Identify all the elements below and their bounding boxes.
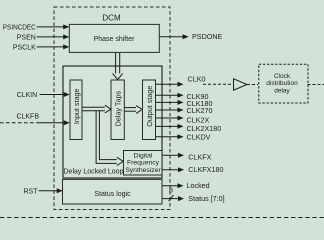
svg-text:distribution: distribution: [266, 80, 298, 87]
svg-text:8: 8: [169, 187, 173, 194]
svg-text:CLKFX180: CLKFX180: [188, 165, 223, 174]
delay locked loop box: [63, 66, 162, 178]
svg-text:Phase shifter: Phase shifter: [94, 36, 136, 43]
svg-text:RST: RST: [24, 188, 39, 195]
wire CLK0: [156, 75, 234, 87]
phase shifter box: [69, 24, 159, 52]
svg-text:Status logic: Status logic: [94, 191, 131, 198]
wire CLKIN: [17, 92, 70, 99]
svg-text:Synthesizer: Synthesizer: [125, 167, 161, 174]
wire CLK270: [156, 106, 213, 115]
svg-text:CLKIN: CLKIN: [17, 92, 38, 99]
wire PSCLK: [13, 44, 69, 51]
status logic box: [63, 179, 163, 204]
svg-text:Status [7:0]: Status [7:0]: [188, 194, 224, 203]
wire PSEN: [17, 34, 69, 41]
svg-text:Output stage: Output stage: [145, 86, 154, 127]
wire CLK180: [156, 99, 213, 108]
svg-text:CLKFX: CLKFX: [188, 152, 211, 161]
delay taps box: [111, 80, 124, 140]
input stage box: [70, 80, 82, 140]
svg-text:CLK0: CLK0: [188, 75, 206, 84]
wire Status [7:0] (bus): [162, 187, 225, 203]
svg-text:Locked: Locked: [187, 181, 210, 190]
svg-text:Frequency: Frequency: [127, 160, 160, 167]
wire CLK2X180: [156, 124, 222, 133]
svg-text:CLKFB: CLKFB: [16, 114, 39, 121]
buffer (clock buffer triangle): [234, 79, 259, 90]
svg-text:Delay Taps: Delay Taps: [113, 90, 122, 126]
wire CLKFX180: [162, 165, 223, 174]
wire CLKFX: [162, 152, 212, 161]
DCM dashed boundary box: [54, 7, 170, 210]
svg-text:Input stage: Input stage: [72, 89, 81, 125]
svg-text:PSDONE: PSDONE: [192, 32, 223, 41]
wire CLK90: [156, 92, 209, 101]
svg-text:PSCLK: PSCLK: [13, 44, 36, 51]
svg-text:PSINCDEC: PSINCDEC: [3, 24, 36, 31]
svg-text:CLKDV: CLKDV: [187, 133, 211, 142]
wire Locked: [162, 181, 210, 190]
wire RST: [24, 188, 63, 195]
svg-text:DCM: DCM: [102, 14, 121, 23]
svg-text:Digital: Digital: [134, 152, 153, 159]
dashed feedback return line (bottom, off-page): [0, 217, 324, 219]
digital frequency synthesizer box: [124, 151, 163, 176]
svg-text:delay: delay: [274, 87, 290, 94]
output stage box: [143, 80, 156, 140]
svg-text:PSEN: PSEN: [17, 34, 36, 41]
svg-text:Delay Locked Loop: Delay Locked Loop: [64, 169, 124, 176]
svg-text:CLK270: CLK270: [187, 106, 213, 115]
wire CLK2X: [156, 116, 210, 125]
pipe wire: phase shifter to delay taps: [113, 53, 123, 80]
wire PSDONE: [159, 32, 222, 41]
svg-text:Clock: Clock: [274, 73, 291, 80]
pipe wire: delay taps to output stage: [124, 106, 142, 114]
wire CLKFB (dashed feedback from off-page): [0, 114, 70, 126]
pipe wire: branch down from input pipe to DFS: [96, 111, 123, 166]
pipe wire: input stage to delay taps: [82, 105, 111, 113]
wire CLKDV: [156, 133, 211, 142]
wire PSINCDEC: [3, 24, 69, 31]
clock distribution delay box (dashed): [259, 64, 324, 103]
